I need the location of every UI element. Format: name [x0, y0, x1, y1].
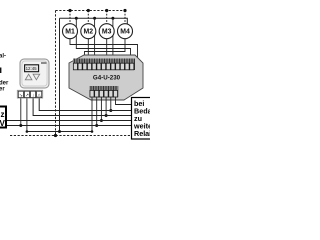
svg-text:G4-U-230: G4-U-230: [93, 74, 121, 81]
svg-text:M2: M2: [84, 29, 94, 36]
svg-text:↓: ↓: [32, 92, 34, 97]
svg-text:M1: M1: [65, 29, 75, 36]
svg-text:al-: al-: [0, 54, 6, 60]
svg-text:Relais: Relais: [134, 129, 150, 138]
svg-text:↘: ↘: [19, 92, 23, 97]
svg-text:M4: M4: [120, 29, 130, 36]
svg-text:z: z: [1, 110, 5, 119]
svg-text:12:45: 12:45: [26, 66, 38, 71]
svg-text:↗: ↗: [25, 92, 29, 97]
svg-text:V: V: [0, 119, 6, 128]
svg-text:△: △: [37, 92, 41, 97]
svg-text:er: er: [0, 87, 5, 93]
svg-text:M3: M3: [102, 29, 112, 36]
